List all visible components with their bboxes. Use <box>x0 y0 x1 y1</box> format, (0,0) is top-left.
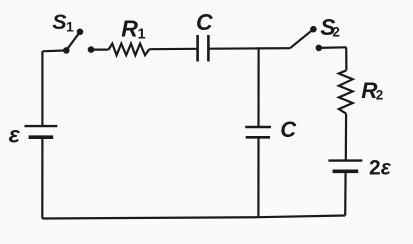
svg-text:1: 1 <box>138 26 146 42</box>
wire: resistor R1 to capacitor C1 <box>149 48 196 51</box>
label ε <box>9 122 21 148</box>
svg-text:2: 2 <box>376 87 384 102</box>
capacitor C1 <box>198 35 209 62</box>
switch S2 <box>290 26 322 51</box>
wire: battery 2e to bottom right corner <box>344 171 347 215</box>
svg-text:2ε: 2ε <box>369 156 392 179</box>
switch S1 <box>63 29 94 54</box>
svg-text:ε: ε <box>9 122 21 148</box>
wire: bottom horizontal <box>42 216 345 219</box>
wire: top-left segment to switch S1 <box>42 49 66 52</box>
label S1 <box>52 10 74 35</box>
svg-text:R: R <box>121 16 138 42</box>
label R2 <box>361 78 383 103</box>
wire: right vertical to resistor R2 <box>345 47 347 70</box>
node A (T junction top) <box>259 47 290 49</box>
svg-text:2: 2 <box>332 24 340 39</box>
wire: left vertical top segment (corner to battery) <box>41 51 43 126</box>
label R1 <box>121 16 145 43</box>
battery ε <box>25 126 58 137</box>
wire: capacitor C1 to node junction <box>208 47 258 49</box>
resistor R2 <box>339 70 353 113</box>
wire: switch S2 to right corner <box>319 46 346 49</box>
wire: capacitor C2 to bottom junction <box>257 137 259 217</box>
svg-text:1: 1 <box>66 19 74 35</box>
svg-text:C: C <box>280 117 297 142</box>
wire: switch S1 to resistor R1 <box>91 48 109 50</box>
wire: battery e to bottom left corner <box>41 137 43 218</box>
svg-text:C: C <box>196 9 213 35</box>
label C (middle capacitor) <box>280 117 297 142</box>
label C (top capacitor) <box>196 9 213 35</box>
label 2ε <box>369 156 392 179</box>
battery 2ε <box>328 161 362 172</box>
label S2 <box>320 14 340 40</box>
wire: middle vertical top (junction to capacitor C2) <box>257 48 259 127</box>
wire: resistor R2 to battery 2e <box>345 114 348 161</box>
resistor R1 <box>109 44 150 56</box>
capacitor C2 <box>245 127 271 137</box>
